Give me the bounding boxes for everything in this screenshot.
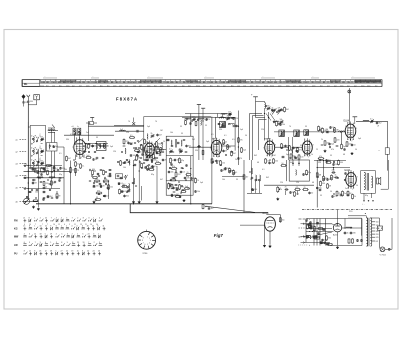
resistor R4 grid: [75, 160, 77, 163]
svg-text:0.5: 0.5: [154, 166, 157, 168]
svg-text:0.1: 0.1: [370, 119, 373, 121]
resistor R98: [202, 149, 204, 152]
PS wire rect left: [306, 231, 334, 233]
svg-text:10k: 10k: [123, 167, 126, 169]
capacitor C24: [151, 158, 153, 161]
wire x70 vertical: [70, 161, 72, 204]
rectifier tube V9: [333, 224, 341, 232]
resistor R40: [347, 190, 349, 193]
svg-text:10k: 10k: [217, 156, 220, 158]
svg-text:27: 27: [61, 251, 63, 253]
svg-text:V 7562: V 7562: [380, 254, 387, 256]
resistor R30: [289, 144, 291, 147]
svg-text:5p6: 5p6: [286, 154, 289, 156]
T4 taps: [371, 221, 375, 223]
svg-text:8: 8: [82, 251, 83, 253]
svg-text:0.1: 0.1: [223, 170, 226, 172]
svg-text:70: 70: [155, 121, 157, 123]
svg-text:10k: 10k: [280, 119, 283, 121]
svg-text:3: 3: [29, 242, 30, 244]
svg-text:220: 220: [177, 174, 180, 176]
wire cans rail: [274, 131, 314, 133]
V4 bottom cluster: [290, 152, 292, 155]
svg-text:7: 7: [42, 224, 43, 226]
wire x292 vertical: [291, 137, 293, 160]
filter cap C55: [344, 231, 346, 232]
IF cans row: can B: [294, 130, 300, 137]
svg-text:4: 4: [99, 218, 100, 220]
trimmer CT7: [227, 118, 228, 120]
switch S1b: [36, 149, 37, 150]
resistor R12: [95, 199, 96, 201]
wire T1 down: [74, 135, 76, 141]
tube V8 EM80 magic eye: [265, 217, 276, 231]
coil L21 osc: [129, 184, 130, 190]
svg-text:2n2: 2n2: [86, 132, 89, 134]
capacitor C54: [322, 238, 324, 241]
audio line row: [264, 184, 314, 186]
svg-text:70: 70: [289, 126, 291, 128]
mixer tangle blobs: [137, 140, 139, 142]
svg-text:82p: 82p: [59, 174, 62, 176]
resistor R68: [294, 190, 296, 193]
svg-text:mnw: mnw: [40, 85, 45, 87]
resistor R15: [156, 140, 158, 143]
svg-text:0.5: 0.5: [211, 134, 214, 136]
PS blob switch S8: [311, 236, 314, 238]
V5 inner pins: [292, 160, 294, 166]
svg-text:47k: 47k: [331, 149, 334, 151]
caps left of transformer C88: [357, 239, 359, 240]
wire vertical V-left: [27, 160, 29, 199]
svg-text:+ -: + -: [362, 204, 365, 206]
osc coils cluster: [146, 134, 149, 139]
T4 top wires: [348, 216, 366, 218]
resistor R77: [317, 228, 320, 230]
capacitor C65: [124, 194, 126, 197]
svg-text:1: 1: [77, 234, 78, 236]
capacitor C15: [93, 184, 95, 187]
svg-text:39: 39: [180, 162, 182, 164]
svg-text:wen: wen: [250, 85, 253, 87]
svg-text:220: 220: [332, 170, 335, 172]
wire diagonal to EM80: [205, 206, 255, 212]
resistor R20: [170, 179, 171, 181]
resistor R26: [220, 159, 222, 162]
svg-text:1: 1: [34, 226, 35, 228]
resistor R57: [119, 188, 121, 191]
svg-text:6.3: 6.3: [376, 241, 379, 243]
IFT1 trimmer 2: [179, 151, 180, 153]
svg-text:wen: wen: [119, 85, 122, 87]
ground G2: [37, 208, 39, 209]
capacitor C41: [285, 189, 286, 191]
svg-text:39: 39: [236, 179, 238, 181]
svg-text:330: 330: [353, 233, 356, 235]
svg-text:70: 70: [187, 172, 189, 174]
svg-text:8k2: 8k2: [254, 155, 257, 157]
svg-text:8k2: 8k2: [105, 146, 108, 148]
capacitor C12: [83, 151, 84, 153]
svg-text:10k: 10k: [95, 178, 98, 180]
resistor R73: [320, 180, 322, 183]
svg-text:15: 15: [77, 251, 79, 253]
capacitor C26: [186, 144, 188, 147]
junction dots V3: [238, 146, 239, 147]
svg-text:sse: sse: [133, 85, 136, 87]
svg-text:82p: 82p: [24, 163, 27, 165]
capacitor C21: [137, 150, 139, 153]
junction dots left rows: [28, 165, 29, 166]
nested B+ wires: [250, 113, 263, 115]
switch S6: [309, 231, 310, 232]
ground bus corner: [130, 204, 268, 213]
IFT1 core lines: [174, 139, 176, 148]
svg-text:5: 5: [56, 242, 57, 244]
ground G6: [156, 201, 158, 202]
capacitor C80: [332, 194, 334, 197]
resistor R28: [241, 146, 243, 149]
svg-text:sse: sse: [237, 85, 240, 87]
box row 2 detail marks: [30, 146, 33, 149]
T3 secondary winding: [371, 176, 372, 188]
svg-text:220: 220: [376, 234, 379, 236]
capacitor C95: [97, 172, 99, 175]
wire row 1: [24, 165, 63, 167]
svg-text:50: 50: [245, 135, 247, 137]
mixer cluster small parts: [120, 159, 122, 162]
svg-text:39: 39: [300, 145, 302, 147]
capacitor C48: [316, 186, 318, 189]
svg-text:6: 6: [82, 234, 83, 236]
svg-text:9: 9: [86, 144, 87, 146]
junction dots rail V1: [85, 143, 86, 144]
ground G1: [33, 206, 35, 207]
resistor R17: [155, 163, 156, 165]
resistor R25: [227, 143, 229, 146]
svg-text:330: 330: [96, 186, 99, 188]
svg-text:220: 220: [181, 187, 184, 189]
svg-text:sse: sse: [125, 85, 128, 87]
svg-text:10: 10: [40, 226, 42, 228]
svg-text:2: 2: [40, 218, 41, 220]
coil L25: [200, 120, 203, 125]
PS long verticals: [313, 219, 315, 246]
svg-text:120: 120: [222, 163, 225, 165]
svg-text:b: b: [78, 126, 79, 128]
trimmer CT9: [280, 121, 281, 123]
terminal dot lamp: [388, 248, 390, 250]
resistor R80: [284, 106, 286, 109]
svg-text:8: 8: [142, 240, 143, 242]
svg-text:1: 1: [147, 236, 148, 238]
tube V6 EL84 upper: [345, 124, 356, 138]
svg-text:47k: 47k: [278, 108, 281, 110]
shielded coil T1: [73, 128, 76, 135]
resistor R94: [47, 169, 49, 172]
left small cluster y157: [318, 158, 319, 160]
capacitor C29: [168, 170, 170, 173]
svg-text:8k2: 8k2: [126, 196, 129, 198]
wire grid row: [84, 143, 108, 145]
resistor R34: [294, 189, 295, 191]
resistor R82: [45, 165, 48, 167]
trimmer CT12: [278, 110, 279, 112]
dial lamp wire: [348, 88, 350, 124]
small parts bottom if: [171, 193, 173, 196]
svg-text:F 8 X 8 7 A: F 8 X 8 7 A: [116, 97, 137, 102]
resistor R19: [175, 171, 177, 174]
svg-text:25: 25: [66, 251, 68, 253]
svg-text:50: 50: [311, 193, 313, 195]
svg-text:47k: 47k: [97, 190, 100, 192]
capacitor C94: [145, 165, 147, 168]
svg-text:2: 2: [56, 234, 57, 236]
svg-text:70: 70: [304, 187, 306, 189]
resistor R39: [342, 190, 344, 193]
capacitor C60: [103, 144, 105, 147]
wire + to coil: [256, 102, 265, 103]
AM antenna coil L30: [265, 103, 266, 109]
dial scale assembly: [22, 79, 382, 81]
svg-text:1: 1: [93, 218, 94, 220]
switch S5: [307, 238, 308, 239]
svg-text:EL84: EL84: [345, 169, 351, 172]
svg-text:10k: 10k: [282, 124, 285, 126]
svg-text:4k7: 4k7: [68, 158, 71, 160]
svg-text:39: 39: [330, 155, 332, 157]
svg-text:hvr: hvr: [46, 84, 49, 87]
tube V5 EABC80: [302, 141, 312, 154]
resistor R86: [155, 152, 158, 154]
IFT1 trimmer 1: [169, 151, 170, 153]
svg-text:ML: ML: [24, 83, 28, 86]
svg-text:26: 26: [39, 251, 41, 253]
wire 113 extend: [205, 113, 231, 115]
svg-text:68: 68: [312, 182, 314, 184]
capacitor C28: [174, 158, 176, 161]
svg-text:68: 68: [138, 158, 140, 160]
svg-text:FM: FM: [14, 220, 17, 223]
svg-text:50: 50: [356, 185, 358, 187]
svg-text:mnw: mnw: [270, 85, 275, 87]
svg-text:8k2: 8k2: [266, 177, 269, 179]
box small left: [116, 174, 123, 179]
antenna A2 dipole: [27, 95, 29, 97]
capacitor C11: [47, 195, 49, 196]
resistor R76: [314, 225, 316, 228]
antenna A1 diamond: [22, 95, 25, 99]
antenna A3 boxed: [34, 95, 40, 100]
big box outline osc: [143, 117, 145, 161]
tube V1 ECC85: [74, 140, 86, 155]
svg-text:brx: brx: [217, 84, 220, 87]
capacitor C13: [92, 145, 94, 146]
trimmer CT8: [228, 114, 229, 116]
V3 cathode parts: [211, 157, 213, 160]
capacitor C45: [351, 143, 353, 146]
capacitor C20: [121, 189, 123, 192]
svg-text:9: 9: [67, 242, 68, 244]
PS wire v345: [344, 219, 346, 229]
capacitor C69: [186, 163, 188, 166]
svg-text:7: 7: [263, 148, 264, 150]
svg-text:0.5: 0.5: [59, 153, 62, 155]
capacitor C77: [333, 162, 335, 165]
ground G5: [138, 201, 140, 202]
power transformer T4 core: [367, 218, 369, 247]
box around V4 stage: [286, 160, 288, 181]
svg-text:2k: 2k: [321, 139, 323, 141]
trimmer CT10: [370, 120, 371, 122]
svg-text:2n2: 2n2: [344, 193, 347, 195]
svg-text:24: 24: [88, 234, 90, 236]
capacitor C40: [294, 155, 296, 158]
resistor R16: [160, 146, 162, 149]
svg-text:100: 100: [275, 161, 278, 163]
svg-text:8: 8: [83, 218, 84, 220]
svg-text:9: 9: [69, 224, 70, 226]
svg-text:EBF89: EBF89: [264, 139, 271, 141]
ground G9: [324, 150, 326, 151]
wire top rail to pointer: [114, 124, 144, 126]
svg-text:4k7: 4k7: [290, 162, 293, 164]
tube socket B9A view: [138, 231, 156, 249]
svg-text:50: 50: [355, 149, 357, 151]
svg-text:330: 330: [340, 162, 343, 164]
svg-text:5p6: 5p6: [331, 144, 334, 146]
mixer lower parts: resistor R88: [141, 162, 143, 165]
svg-text:5: 5: [61, 234, 62, 236]
svg-text:EL84: EL84: [344, 120, 350, 123]
parts near varcap: resistor R95: [32, 200, 35, 202]
svg-text:82p: 82p: [365, 195, 368, 197]
tone pot R33: [277, 186, 279, 187]
svg-text:2n2: 2n2: [345, 188, 348, 190]
resistor R51: [85, 157, 88, 159]
V4 extras: resistor R64: [265, 157, 267, 160]
svg-text:47k: 47k: [319, 156, 322, 158]
box around V3 stage: [216, 117, 236, 150]
svg-text:2: 2: [271, 157, 272, 159]
svg-text:a1: a1: [72, 126, 74, 128]
svg-text:10k: 10k: [110, 187, 113, 189]
svg-text:11: 11: [103, 226, 105, 228]
svg-text:4: 4: [149, 243, 150, 245]
svg-text:39: 39: [127, 188, 129, 190]
wire stubs V1: [74, 141, 76, 144]
variable capacitor C10 tuning: [24, 198, 30, 204]
resistor R32: [298, 153, 300, 156]
svg-text:7: 7: [47, 224, 48, 226]
resistor R1: [53, 165, 55, 168]
svg-text:7: 7: [72, 218, 73, 220]
svg-text:9: 9: [50, 226, 51, 228]
ground bus upper: [36, 203, 212, 205]
coil L2: [33, 149, 34, 155]
wire EM80 left: [240, 224, 265, 226]
osc AM cluster trimmers: [272, 110, 273, 112]
capacitor C102: [136, 130, 137, 132]
ground G4: [133, 201, 135, 202]
svg-text:330: 330: [322, 183, 325, 185]
svg-text:68: 68: [35, 183, 37, 185]
svg-text:3: 3: [88, 218, 89, 220]
speaker coupling top cluster: [363, 120, 369, 121]
svg-text:1: 1: [34, 218, 35, 220]
capacitor C7: [32, 167, 34, 168]
capacitor C42: [309, 191, 311, 194]
capacitor C6: [53, 144, 55, 147]
capacitor C36: [221, 168, 223, 171]
capacitor C103: [176, 186, 178, 189]
svg-text:4: 4: [71, 226, 72, 228]
svg-text:brx: brx: [231, 84, 234, 87]
wire V1 cathode: [75, 168, 77, 176]
tube V2 ECH81 triode: [145, 143, 155, 156]
capacitor C27: [206, 117, 208, 120]
resistor R65: [273, 157, 275, 160]
svg-text:a: a: [309, 219, 310, 221]
svg-text:1k: 1k: [335, 175, 337, 177]
svg-text:8k2: 8k2: [286, 109, 289, 111]
PS wires extra: [306, 228, 332, 230]
IFT1 coil secondary: [181, 140, 182, 146]
svg-text:10k: 10k: [64, 169, 67, 171]
wire x317 vertical: [316, 160, 318, 208]
svg-text:2: 2: [352, 140, 353, 142]
svg-text:47k: 47k: [240, 140, 243, 142]
svg-text:19: 19: [71, 251, 73, 253]
svg-text:9: 9: [357, 177, 358, 179]
IF1 extras: resistor R58: [185, 174, 188, 176]
capacitor C98: [59, 178, 61, 181]
capacitor C22: [156, 151, 158, 154]
svg-text:d: d: [309, 245, 310, 247]
capacitor C8: [43, 167, 45, 168]
coil L14 choke: [259, 175, 260, 181]
resistor R100: [180, 191, 183, 193]
wire long top rail 1: [88, 125, 143, 127]
capacitor C82: [310, 220, 312, 223]
volume pot R21: [168, 183, 170, 184]
svg-text:7: 7: [143, 242, 144, 244]
vertical x54: [54, 151, 56, 178]
svg-text:10k: 10k: [222, 179, 225, 181]
cluster det resistor R81: [276, 120, 278, 123]
svg-text:brx: brx: [59, 84, 62, 87]
capacitor C72: [269, 161, 271, 164]
wire row 2: [24, 170, 71, 172]
svg-text:330: 330: [318, 162, 321, 164]
svg-text:8: 8: [61, 242, 62, 244]
diagonal wires det: [266, 114, 271, 121]
wire mid rail left of box: [115, 130, 144, 132]
capacitor C31: [184, 176, 186, 179]
T3 core: [366, 173, 368, 191]
dial scale left block: [23, 80, 40, 86]
svg-text:330: 330: [328, 238, 331, 240]
resistor R27 on x238: [237, 136, 239, 139]
svg-text:par: par: [334, 84, 337, 87]
socket index tick: [146, 230, 148, 232]
resistor R56: [147, 164, 149, 167]
V6 bottom parts: [346, 140, 348, 143]
svg-text:3: 3: [67, 234, 68, 236]
wire speaker right: [387, 160, 389, 189]
svg-text:1k: 1k: [163, 141, 165, 143]
coil L10 osc: [134, 178, 135, 184]
